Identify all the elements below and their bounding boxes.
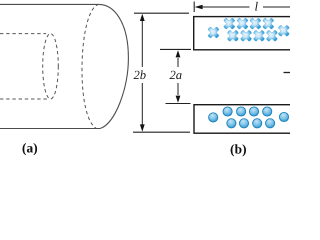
2a arrow up arrowhead [176,50,181,57]
ball row2 c4 [266,119,275,128]
right-edge cut-off tick [284,72,291,74]
2b bottom extension line [133,131,190,133]
ball row1 c3 [249,107,258,116]
inner cylinder bottom dashed line [0,98,47,100]
dimension l: tick [193,2,195,13]
ball single right [279,112,288,121]
label (a) [23,143,38,155]
outer cylinder top line [0,3,99,5]
dimension l: line left segment [202,6,250,8]
2b arrow up arrowhead [140,14,145,21]
ball row1 c4 [263,107,272,116]
outer cylinder front end-cap arc [99,4,128,128]
label 2b [134,70,146,79]
x mark row1 c4 [263,18,274,29]
2a arrow lower shaft [177,83,179,95]
dimension l: label [255,2,258,11]
x mark row2 c2 [241,30,252,41]
2a arrow down arrowhead [176,96,181,103]
inner cylinder top dashed line [0,33,46,35]
2a arrow upper shaft [177,58,179,67]
top plate rectangle [194,17,292,50]
x mark row2 c1 [227,30,238,41]
ball row2 c1 [227,119,236,128]
x mark row1 c3 [250,18,261,29]
2b top extension line [134,12,189,14]
ball single left [209,113,218,122]
x mark single left [208,27,219,38]
x mark row2 c3 [253,30,264,41]
bottom plate rectangle [194,105,292,134]
2b arrow lower shaft [141,83,143,126]
2b arrow down arrowhead [140,124,145,131]
dimension l: line right segment [263,6,290,8]
outer cylinder bottom line [0,128,100,130]
label (b) [231,144,246,156]
2b arrow upper shaft [141,21,143,67]
x mark single right [278,25,289,36]
x mark row1 c1 [224,18,235,29]
2a bottom extension line [166,103,191,105]
x mark row1 c2 [237,18,248,29]
x mark row2 c4 [266,30,277,41]
inner cylinder dashed end-cap ellipse [43,34,59,99]
2a top extension line [160,48,191,50]
ball row2 c2 [239,119,248,128]
label 2a [170,71,182,79]
outer cylinder hidden back arc (dashed) [82,4,99,128]
ball row1 c2 [237,107,246,116]
dimension l: left arrowhead [195,5,203,10]
ball row1 c1 [223,107,232,116]
ball row2 c3 [253,119,262,128]
